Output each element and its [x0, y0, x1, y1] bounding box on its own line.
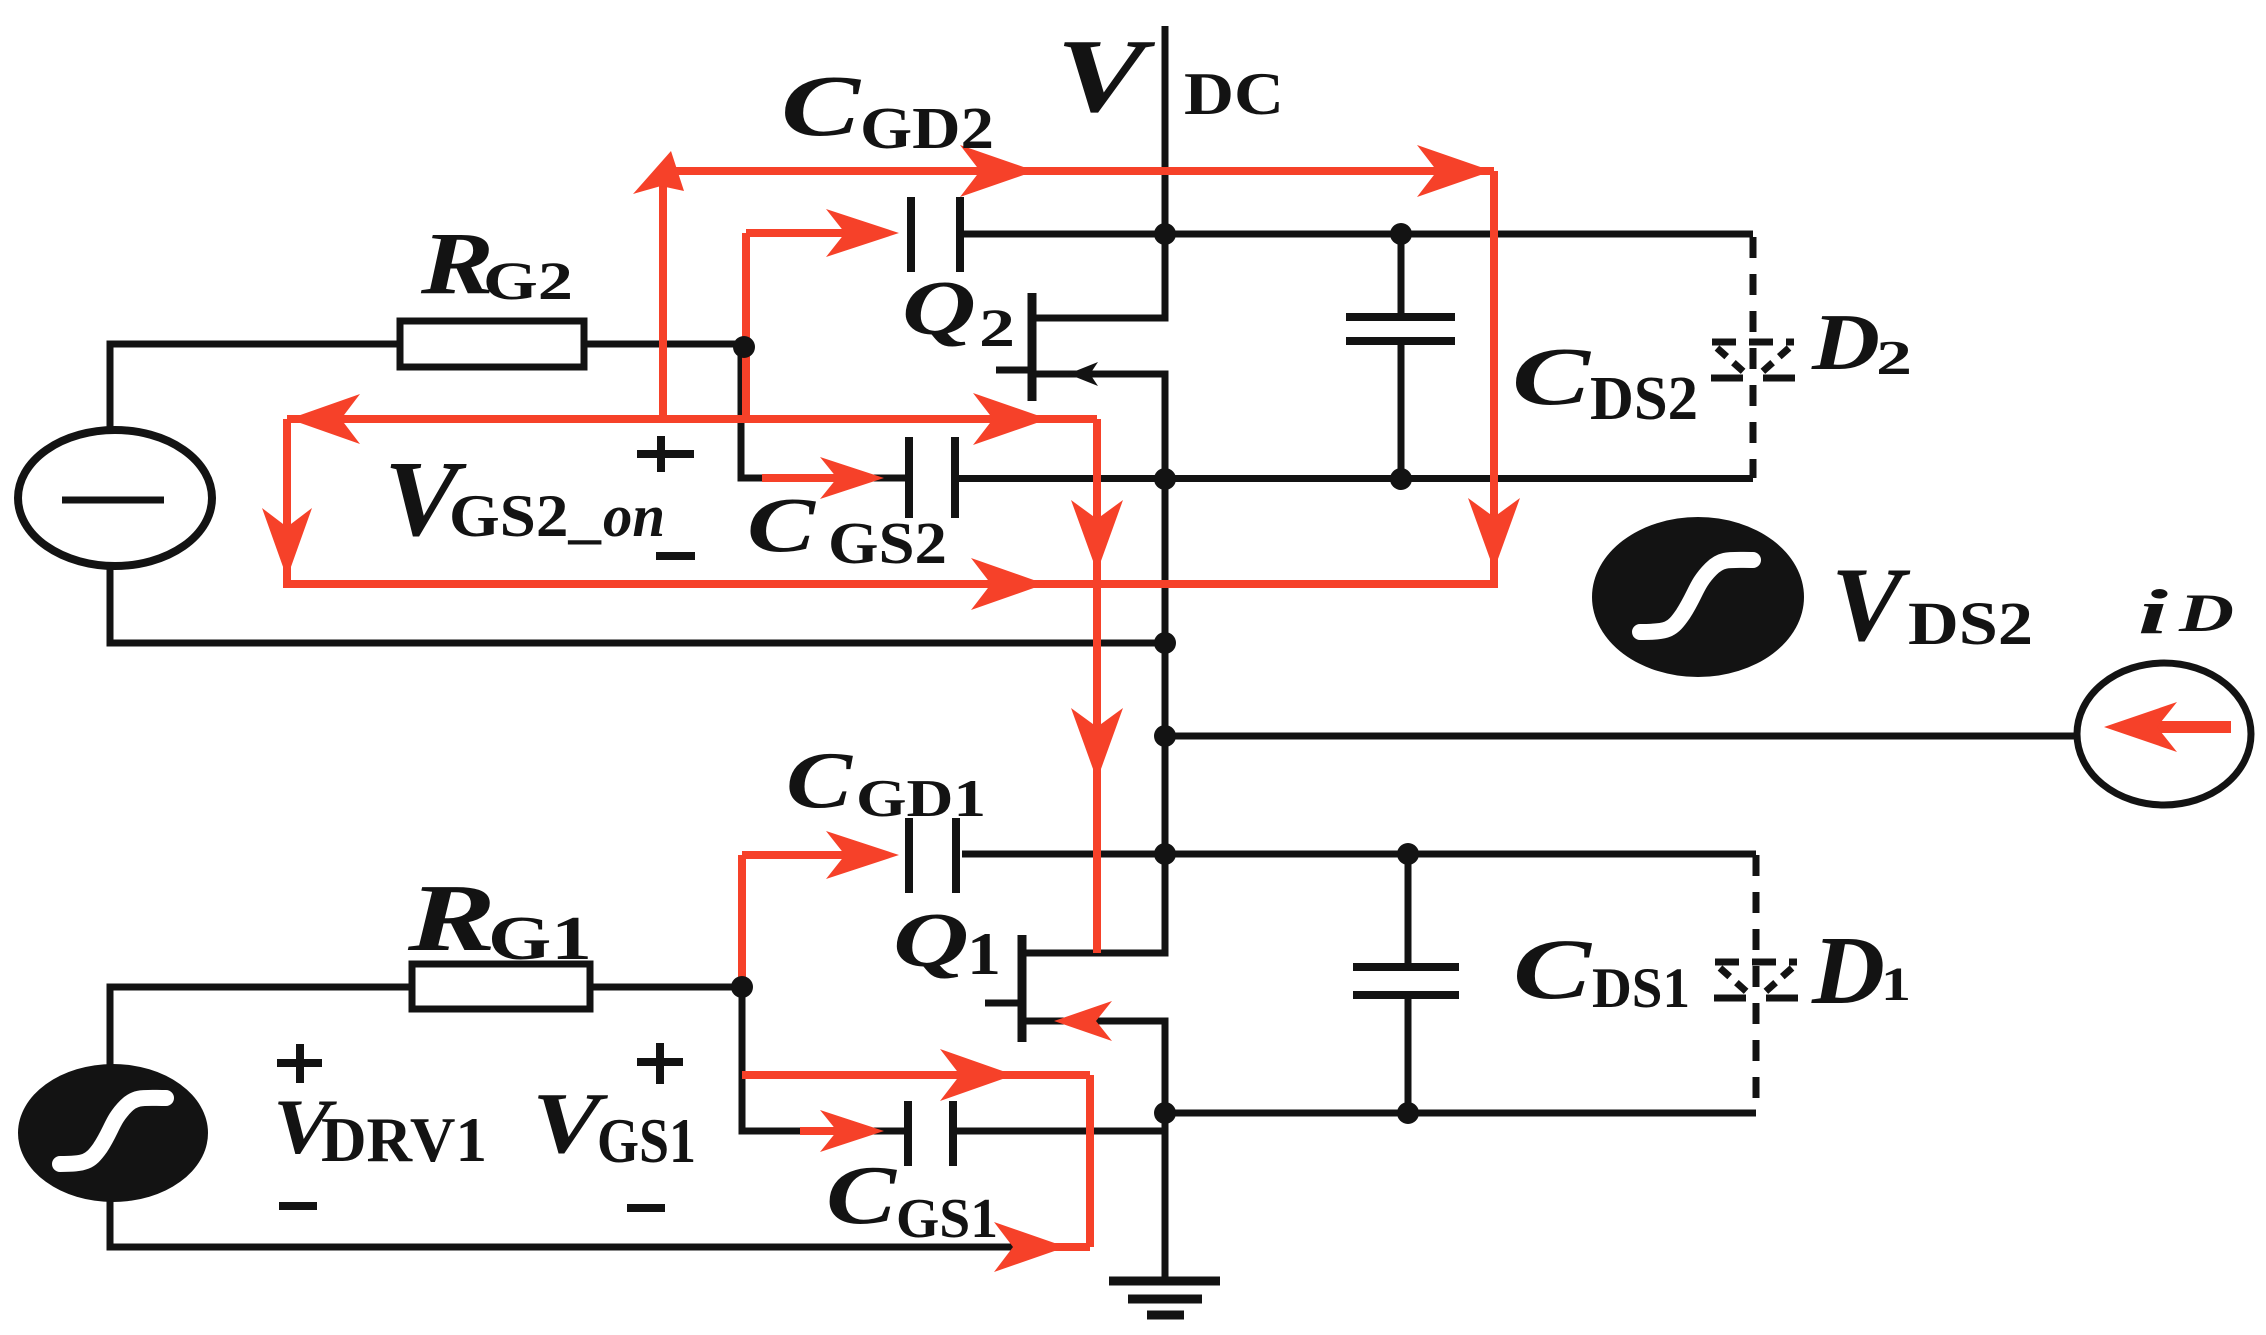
svg-text:C: C [1513, 921, 1593, 1017]
wire VDRV1 bottom lead [107, 1200, 114, 1251]
voltage source VDRV1 blob [18, 1064, 208, 1202]
wire source top lead [107, 341, 114, 432]
red wire VGS2 loop horizontal [287, 415, 1097, 423]
transistor Q2 source stub [1032, 371, 1169, 378]
voltage source VGS2_on minus bar [62, 497, 164, 504]
svg-text:G1: G1 [488, 905, 592, 973]
svg-text:GS1: GS1 [896, 1188, 998, 1250]
minus sign VGS2_on [656, 552, 695, 560]
resistor RG1 body [412, 964, 590, 1009]
red arrowhead VGS1 bottom [994, 1222, 1066, 1272]
red wire left vertical up [659, 171, 667, 423]
wire from VGS2_on source to RG2 [107, 341, 401, 348]
svg-text:2: 2 [1876, 330, 1912, 385]
svg-text:GD1: GD1 [856, 770, 986, 828]
transistor Q2 body bar [1028, 293, 1037, 401]
red wire into CGD1 horizontal [742, 851, 880, 859]
red arrowhead at top right corner [1417, 145, 1492, 197]
capacitor CDS2 top lead [1398, 234, 1405, 317]
wire VDC bus middle segment [1162, 374, 1169, 953]
plus sign VDRV1 [277, 1044, 322, 1083]
red wire middle vertical through CGS2 node [1093, 419, 1101, 953]
red wire into CGD1 vertical [738, 855, 746, 987]
transistor Q2 source arrow [1068, 362, 1098, 386]
red wire VGS1 loop bottom [1024, 1243, 1090, 1251]
capacitor CGS1 plates [904, 1101, 912, 1166]
svg-text:GS1: GS1 [597, 1106, 696, 1176]
transistor Q1 source stub [1022, 1018, 1169, 1025]
svg-text:1: 1 [1881, 958, 1911, 1011]
svg-text:V: V [1056, 17, 1156, 134]
red wire into CGD2 vertical [742, 233, 750, 419]
diode D1 dashed cathode bar [1714, 995, 1798, 1002]
diode D2 dashed triangle sides [1717, 348, 1745, 373]
junction node Q2 gate [733, 336, 755, 358]
voltage source VGS2_on circle [18, 430, 212, 566]
svg-text:V: V [1831, 546, 1910, 663]
wire Q2 drain rail [962, 231, 1753, 238]
svg-text:C: C [826, 1149, 897, 1242]
svg-text:GS2_: GS2_ [449, 483, 602, 549]
svg-text:C: C [747, 481, 816, 568]
capacitor CDS1 top lead [1405, 852, 1412, 967]
transistor Q2 gate stub [996, 367, 1036, 374]
wire to current source iD [1165, 733, 2078, 740]
red arrowhead VGS2 loop left [289, 394, 360, 444]
waveform source VDS2 blob [1592, 517, 1804, 677]
resistor RG2 body [400, 321, 584, 367]
red arrowhead return path right [971, 558, 1045, 610]
red arrowhead on top path [960, 145, 1035, 197]
svg-text:D: D [1811, 299, 1880, 387]
red arrowhead VGS2 loop right [973, 393, 1048, 445]
wire VDC bus lower segment [1162, 1021, 1169, 1281]
red wire into CGS2 [762, 474, 862, 482]
svg-text:D: D [1811, 917, 1885, 1024]
junction node source rail at CDS2 [1390, 468, 1412, 490]
red wire into CGD2 horizontal [746, 229, 880, 237]
wire source bottom lead [107, 565, 114, 647]
diode D2 dashed lead [1750, 237, 1757, 478]
red wire VGS2 loop left vertical [283, 419, 291, 588]
capacitor CGD1 plates [905, 818, 913, 893]
svg-text:DC: DC [1184, 61, 1284, 127]
transistor Q1 body bar [1018, 935, 1027, 1042]
svg-text:G2: G2 [483, 251, 573, 311]
red wire iD arrow shaft [2150, 721, 2231, 733]
svg-text:DS2: DS2 [1908, 591, 2033, 658]
svg-text:1: 1 [967, 921, 1001, 987]
red wire into CGS1 [800, 1127, 862, 1135]
diode D2 dashed anode bar [1712, 339, 1794, 346]
junction node Q1 drain rail at CDS1 [1397, 843, 1419, 865]
wire VGS2_on bottom rail [110, 640, 1169, 647]
wire VDRV1 top lead [107, 984, 114, 1067]
junction node iD tap at bus [1154, 725, 1176, 747]
plus sign VGS1 [637, 1043, 683, 1084]
ground symbol [1109, 1277, 1220, 1286]
wire Q1 drain rail [962, 851, 1756, 858]
wire VDRV1 bottom rail [110, 1244, 1090, 1251]
svg-text:C: C [1512, 330, 1592, 422]
junction node VGS2 return at bus [1154, 632, 1176, 654]
red wire VGS1 loop horizontal [742, 1071, 1090, 1079]
red wire top horizontal CGD2 path [663, 167, 1494, 175]
svg-text:DS1: DS1 [1592, 957, 1690, 1020]
svg-text:GD2: GD2 [860, 95, 994, 161]
wire CGS1 left lead [739, 1128, 909, 1135]
red arrowhead middle vertical upper [1071, 500, 1123, 572]
wire Q1 source rail [1165, 1110, 1756, 1117]
svg-text:GS2: GS2 [828, 510, 947, 576]
wire RG1 to gate node [590, 984, 745, 991]
red wire VGS1 loop right vertical [1086, 1075, 1094, 1247]
diode D1 dashed triangle sides [1720, 968, 1748, 993]
red arrowhead VGS1 loop right [940, 1049, 1014, 1101]
wire VDRV1 to RG1 [107, 984, 413, 991]
junction node Q1 gate [731, 976, 753, 998]
capacitor CDS2 bottom lead [1398, 341, 1405, 479]
svg-text:C: C [786, 737, 854, 825]
svg-text:D: D [2178, 583, 2234, 643]
red arrowhead up at left top [633, 151, 684, 194]
red arrowhead right vertical down [1468, 498, 1520, 570]
svg-text:C: C [781, 57, 861, 154]
svg-text:DRV1: DRV1 [321, 1105, 487, 1175]
svg-text:R: R [407, 864, 496, 971]
svg-text:on: on [603, 483, 665, 549]
red wire lower horizontal return path [287, 580, 1498, 588]
junction node drain rail at CDS2 [1390, 223, 1412, 245]
transistor Q1 gate stub [985, 1000, 1026, 1007]
red arrowhead Q1 source [1054, 1001, 1112, 1041]
junction node Q1 drain rail at bus [1154, 843, 1176, 865]
junction node drain rail at bus [1154, 223, 1176, 245]
junction node Q1 source rail at bus [1154, 1102, 1176, 1124]
wire Q2 gate node vertical [738, 344, 745, 482]
wire Q2 source rail [955, 475, 1753, 482]
capacitor CDS2 plates [1346, 313, 1455, 321]
capacitor CDS1 plates [1353, 963, 1459, 971]
transistor Q1 drain stub [1022, 950, 1169, 957]
current source iD circle [2077, 663, 2251, 805]
red arrowhead into CGS2 [820, 457, 884, 499]
minus sign VGS1 [627, 1204, 665, 1212]
diode D1 dashed anode bar [1715, 959, 1797, 966]
red wire right vertical CGD2 return [1490, 171, 1498, 588]
plus sign VGS2_on [637, 436, 694, 472]
diode D1 dashed lead [1753, 855, 1760, 1113]
red arrowhead middle vertical lower [1071, 708, 1123, 780]
wire Q1 gate node vertical [739, 987, 746, 1135]
wire RG2 to gate node [584, 341, 745, 348]
red arrowhead iD current source [2104, 702, 2177, 752]
capacitor CGS2 plates [905, 437, 913, 518]
red arrowhead into CGD2 [826, 209, 899, 257]
minus sign VDRV1 [279, 1202, 317, 1210]
diode D2 dashed cathode bar [1711, 375, 1795, 382]
svg-text:DS2: DS2 [1590, 365, 1698, 433]
capacitor CGD2 plates [907, 197, 915, 272]
capacitor CDS1 bottom lead [1405, 995, 1412, 1113]
red arrowhead into CGD1 [826, 831, 899, 879]
junction node source rail at bus [1154, 468, 1176, 490]
wire Q2 drain stub [1032, 315, 1169, 322]
svg-text:i: i [2138, 577, 2169, 647]
svg-text:2: 2 [979, 298, 1015, 358]
svg-text:Q: Q [902, 265, 976, 351]
wire CGS2 left lead [738, 475, 909, 482]
wire CGS1 right lead [953, 1128, 1169, 1135]
svg-text:Q: Q [893, 897, 969, 983]
red arrowhead VGS2 loop down [262, 508, 312, 578]
red arrowhead into CGS1 [820, 1110, 884, 1152]
junction node Q1 source rail at CDS1 [1397, 1102, 1419, 1124]
wire VDC bus upper segment [1162, 26, 1169, 322]
